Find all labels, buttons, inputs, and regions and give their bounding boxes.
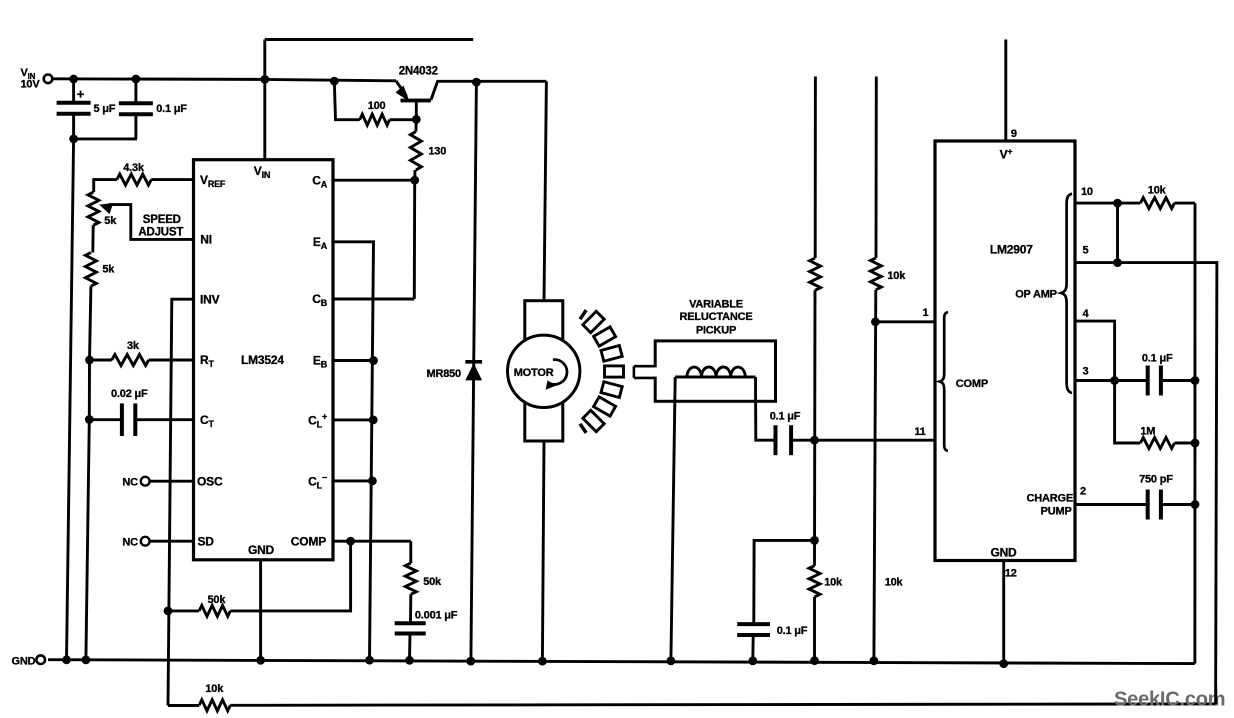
svg-text:3k: 3k [127,340,140,352]
svg-text:3: 3 [1083,365,1089,377]
svg-text:ADJUST: ADJUST [138,226,183,238]
svg-text:0.1 μF: 0.1 μF [777,625,808,637]
svg-text:10k: 10k [1148,184,1167,196]
svg-text:11: 11 [914,426,925,438]
svg-text:CHARGE: CHARGE [1027,493,1073,505]
svg-text:0.1 μF: 0.1 μF [770,411,801,423]
svg-text:50k: 50k [208,594,227,606]
svg-text:GND: GND [990,545,1017,559]
svg-text:5: 5 [1083,244,1089,256]
svg-text:SeekIC.com: SeekIC.com [1114,689,1225,711]
svg-text:5k: 5k [104,215,117,227]
svg-text:10k: 10k [885,577,904,589]
svg-text:LM2907: LM2907 [990,243,1033,257]
svg-text:PICKUP: PICKUP [696,324,736,336]
svg-text:VARIABLE: VARIABLE [689,299,743,311]
svg-text:COMP: COMP [291,534,326,548]
svg-text:10k: 10k [205,683,224,695]
svg-text:0.001 μF: 0.001 μF [415,610,458,622]
svg-text:OSC: OSC [197,474,223,488]
svg-text:MOTOR: MOTOR [514,367,554,379]
svg-text:100: 100 [368,100,386,112]
svg-text:GND: GND [248,543,275,557]
svg-text:0.1 μF: 0.1 μF [1142,353,1173,365]
svg-text:NC: NC [122,536,138,548]
svg-text:9: 9 [1011,128,1017,140]
svg-text:GND: GND [12,656,36,668]
svg-text:50k: 50k [423,576,442,588]
svg-text:MR850: MR850 [427,368,462,380]
svg-text:SPEED: SPEED [143,214,181,226]
svg-text:COMP: COMP [956,378,988,390]
svg-text:4.3k: 4.3k [123,162,145,174]
svg-text:750 pF: 750 pF [1139,473,1173,485]
svg-text:NI: NI [200,233,212,247]
svg-text:RELUCTANCE: RELUCTANCE [680,311,753,323]
svg-text:NC: NC [122,476,138,488]
svg-text:+: + [77,87,85,102]
svg-text:0.1 μF: 0.1 μF [156,103,187,115]
svg-text:130: 130 [428,146,446,158]
svg-text:2N4032: 2N4032 [399,65,438,77]
svg-text:5k: 5k [102,264,115,276]
svg-text:10k: 10k [824,577,843,589]
svg-text:10V: 10V [21,79,41,91]
svg-text:10k: 10k [887,270,906,282]
svg-text:1: 1 [923,307,929,319]
svg-text:0.02 μF: 0.02 μF [111,388,148,400]
svg-text:PUMP: PUMP [1041,505,1072,517]
svg-text:SD: SD [198,534,215,548]
svg-text:10: 10 [1081,186,1093,198]
svg-text:5 μF: 5 μF [94,103,116,115]
svg-text:12: 12 [1005,567,1017,579]
svg-text:LM3524: LM3524 [241,353,284,367]
svg-text:OP AMP: OP AMP [1015,289,1057,301]
svg-text:1M: 1M [1140,425,1155,437]
svg-text:2: 2 [1080,485,1086,497]
svg-text:INV: INV [200,292,220,306]
